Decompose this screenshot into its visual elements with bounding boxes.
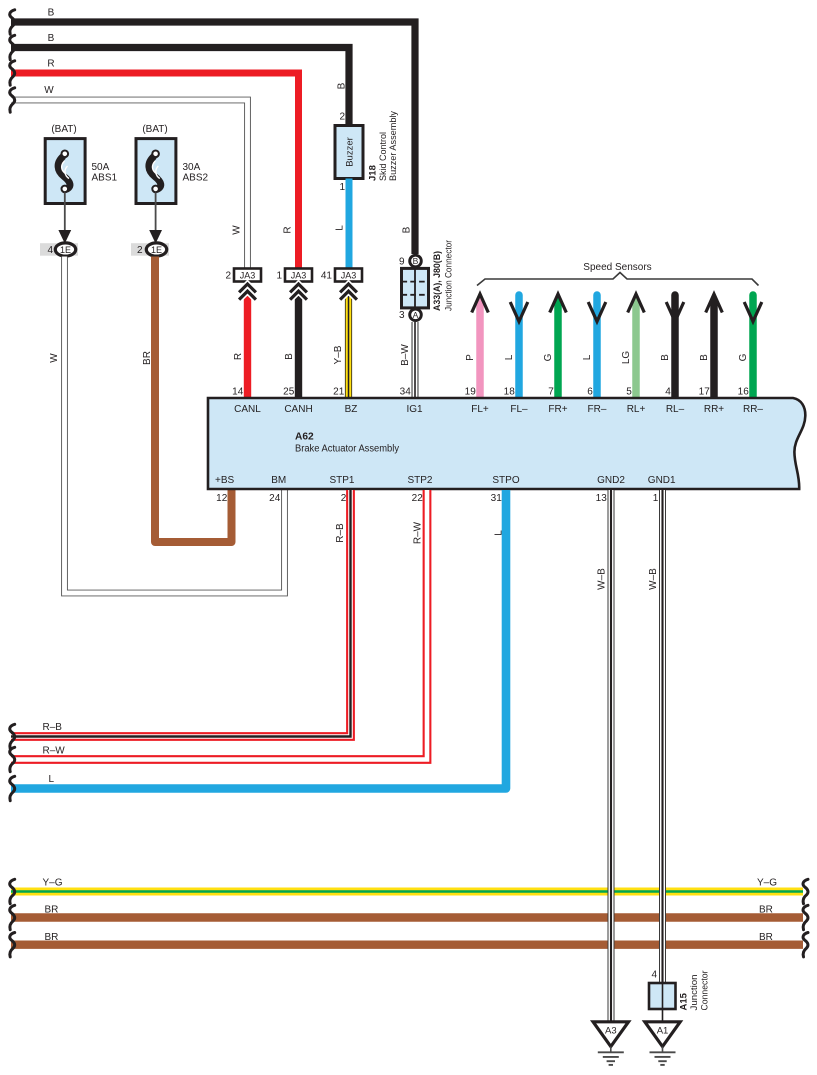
svg-text:R: R <box>47 59 54 70</box>
svg-text:FR+: FR+ <box>548 404 567 415</box>
svg-text:BR: BR <box>759 905 773 916</box>
junction connector A15 <box>649 970 711 1011</box>
svg-text:R: R <box>233 353 244 360</box>
svg-text:16: 16 <box>738 386 750 397</box>
svg-text:B–W: B–W <box>400 344 411 366</box>
svg-text:17: 17 <box>699 386 711 397</box>
wire BR (1E pin 2 to A62 pin +BS) <box>155 257 232 543</box>
svg-text:CANL: CANL <box>234 404 261 415</box>
svg-text:BM: BM <box>271 475 286 486</box>
chevron arrows below JA3 pin 1 <box>290 284 307 300</box>
wire W (1E pin 4 to A62 pin BM) <box>65 257 285 594</box>
svg-text:L: L <box>335 225 346 231</box>
svg-text:(BAT): (BAT) <box>142 124 167 135</box>
svg-text:1: 1 <box>653 493 659 504</box>
svg-text:2: 2 <box>339 112 345 123</box>
wire B-W (A33 pin 3 to A62 pin IG1) <box>412 322 419 399</box>
svg-text:RR+: RR+ <box>704 404 724 415</box>
wire L (A62 pin STPO) <box>11 490 506 789</box>
svg-text:Brake Actuator Assembly: Brake Actuator Assembly <box>295 444 399 455</box>
svg-text:4: 4 <box>665 386 671 397</box>
svg-text:50A: 50A <box>92 162 110 173</box>
svg-text:BR: BR <box>142 351 153 365</box>
wire L (buzzer pin 1 to JA3 pin 41) <box>346 179 353 269</box>
svg-text:B: B <box>48 8 55 19</box>
wire W-B (A62 pin GND2 to ground A3) <box>608 490 615 1022</box>
svg-text:STPO: STPO <box>492 475 519 486</box>
svg-text:W: W <box>49 353 60 363</box>
wire break mark (B feed 2) <box>10 35 15 59</box>
svg-text:A3: A3 <box>605 1025 617 1036</box>
wire W-B (A62 pin GND1 to junction connector A15) <box>659 490 666 984</box>
wire P speed sensor (FL+) <box>465 294 488 399</box>
ECU A62 Brake Actuator Assembly <box>208 398 805 489</box>
wire B (battery feed 1, to junction connector A33/J80 pin 9) <box>11 22 415 254</box>
svg-text:R–B: R–B <box>43 722 63 733</box>
svg-text:B: B <box>48 33 55 44</box>
wire G speed sensor (RR–) <box>738 295 762 399</box>
wire L speed sensor (FL–) <box>504 295 528 399</box>
svg-text:Junction Connector: Junction Connector <box>444 240 455 311</box>
svg-text:IG1: IG1 <box>406 404 423 415</box>
svg-text:13: 13 <box>596 493 608 504</box>
wire Y-B (JA3 pin 41 to A62 pin BZ) <box>345 296 352 399</box>
svg-text:BR: BR <box>45 905 59 916</box>
wire break mark (BR2 left) <box>10 933 15 957</box>
chevron arrows below JA3 pin 2 <box>239 284 256 300</box>
wire break mark (R feed) <box>10 61 15 85</box>
svg-text:Buzzer Assembly: Buzzer Assembly <box>388 111 399 181</box>
svg-text:1: 1 <box>276 271 282 282</box>
wire break mark (BR1 right) <box>803 905 808 929</box>
wire break mark (Y-G right) <box>803 879 808 903</box>
svg-text:Buzzer: Buzzer <box>345 137 356 167</box>
svg-text:Y–G: Y–G <box>757 878 777 889</box>
svg-text:9: 9 <box>399 257 405 268</box>
svg-text:J18: J18 <box>368 165 379 181</box>
fuse 50A ABS1 <box>45 124 117 204</box>
wire Y-G (horizontal) <box>11 888 803 896</box>
svg-text:FL+: FL+ <box>471 404 489 415</box>
connector 1E pin 4 <box>40 243 78 256</box>
svg-text:R–B: R–B <box>335 523 346 543</box>
svg-text:RL–: RL– <box>666 404 685 415</box>
svg-text:L: L <box>494 530 505 536</box>
svg-text:ABS2: ABS2 <box>183 172 209 183</box>
svg-text:1E: 1E <box>151 245 162 255</box>
wire R-W (A62 pin STP2) <box>11 490 427 760</box>
svg-text:B: B <box>660 354 671 361</box>
svg-text:RR–: RR– <box>743 404 763 415</box>
svg-text:4: 4 <box>47 245 53 256</box>
svg-text:L: L <box>49 774 55 785</box>
svg-text:34: 34 <box>400 386 412 397</box>
svg-text:W: W <box>232 225 243 235</box>
svg-text:G: G <box>543 353 554 361</box>
svg-text:B: B <box>337 82 348 89</box>
fuse 30A ABS2 <box>136 124 209 204</box>
svg-text:21: 21 <box>333 386 345 397</box>
svg-text:41: 41 <box>321 271 333 282</box>
junction connector JA3 pin 2 <box>225 269 261 282</box>
svg-text:7: 7 <box>548 386 554 397</box>
svg-text:B: B <box>413 256 419 266</box>
svg-text:1: 1 <box>339 182 345 193</box>
svg-text:A1: A1 <box>657 1025 669 1036</box>
wire B (JA3 pin 1 to A62 pin CANH) <box>295 296 302 399</box>
bracket over speed sensor wires <box>477 273 759 286</box>
svg-text:W–B: W–B <box>648 568 659 590</box>
svg-text:GND2: GND2 <box>597 475 625 486</box>
svg-text:25: 25 <box>283 386 295 397</box>
svg-text:12: 12 <box>216 493 228 504</box>
wire R-B (A62 pin STP1 to stop light switch) <box>11 490 351 737</box>
wire BR (horizontal 2) <box>11 941 803 949</box>
svg-text:14: 14 <box>232 386 244 397</box>
svg-text:R: R <box>283 226 294 233</box>
svg-text:5: 5 <box>626 386 632 397</box>
wire L speed sensor (FR–) <box>582 295 606 399</box>
chevron arrows below JA3 pin 41 <box>340 284 357 300</box>
wire B (battery feed 2, to skid control buzzer pin 2) <box>11 48 349 127</box>
svg-text:18: 18 <box>504 386 516 397</box>
svg-text:BR: BR <box>45 932 59 943</box>
svg-text:JA3: JA3 <box>291 270 307 280</box>
svg-text:FR–: FR– <box>588 404 607 415</box>
svg-text:FL–: FL– <box>510 404 528 415</box>
svg-text:RL+: RL+ <box>627 404 646 415</box>
svg-text:W: W <box>44 85 54 96</box>
wire fuse2 to connector 1E pin 2 <box>155 192 157 232</box>
connector 1E pin 2 <box>131 243 169 256</box>
svg-text:W–B: W–B <box>597 568 608 590</box>
junction connector A33(A), J80(B) <box>399 240 455 321</box>
svg-text:4: 4 <box>651 970 657 981</box>
buzzer J18 Skid Control Buzzer Assembly <box>335 111 399 193</box>
svg-text:Y–B: Y–B <box>333 345 344 364</box>
wire R (JA3 pin 2 to A62 pin CANL) <box>244 296 251 399</box>
svg-text:22: 22 <box>412 493 424 504</box>
svg-text:ABS1: ABS1 <box>92 172 118 183</box>
svg-text:STP2: STP2 <box>407 475 432 486</box>
wire fuse1 to connector 1E pin 4 <box>64 192 66 232</box>
svg-text:B: B <box>699 354 710 361</box>
svg-text:24: 24 <box>269 493 281 504</box>
svg-text:(BAT): (BAT) <box>51 124 76 135</box>
svg-text:JA3: JA3 <box>341 270 357 280</box>
wire G speed sensor (FR+) <box>543 294 566 399</box>
svg-text:3: 3 <box>399 310 405 321</box>
svg-text:A33(A), J80(B): A33(A), J80(B) <box>432 251 443 311</box>
wire break mark (BR2 right) <box>803 933 808 957</box>
wire R (feed to junction connector JA3 pin 1) <box>11 73 299 268</box>
wire A15 to ground A1 <box>662 983 664 1022</box>
svg-text:1E: 1E <box>60 245 71 255</box>
svg-text:BR: BR <box>759 932 773 943</box>
svg-text:JA3: JA3 <box>240 270 256 280</box>
svg-text:2: 2 <box>225 271 231 282</box>
svg-text:2: 2 <box>137 245 143 256</box>
svg-text:19: 19 <box>465 386 477 397</box>
svg-text:STP1: STP1 <box>329 475 354 486</box>
wire break mark (R-B) <box>10 724 15 748</box>
junction connector JA3 pin 41 <box>321 269 362 282</box>
svg-text:GND1: GND1 <box>648 475 676 486</box>
svg-text:BZ: BZ <box>345 404 358 415</box>
ground A3 <box>593 1022 628 1065</box>
svg-text:Speed Sensors: Speed Sensors <box>583 262 651 273</box>
svg-text:Junction: Junction <box>689 975 700 1011</box>
svg-text:Y–G: Y–G <box>43 878 63 889</box>
wire break mark (W feed) <box>10 88 15 112</box>
wire W (feed to junction connector JA3 pin 2) <box>11 100 248 268</box>
wire break mark (B feed 1) <box>10 10 15 34</box>
wire break mark (L) <box>10 776 15 800</box>
svg-text:G: G <box>738 353 749 361</box>
svg-text:Connector: Connector <box>700 971 711 1011</box>
svg-text:P: P <box>465 354 476 361</box>
svg-text:CANH: CANH <box>284 404 312 415</box>
wire BR (horizontal 1) <box>11 913 803 921</box>
wire break mark (R-W) <box>10 747 15 771</box>
svg-text:A: A <box>413 310 419 320</box>
svg-text:6: 6 <box>587 386 593 397</box>
wire B speed sensor (RR+) <box>699 294 722 399</box>
wire LG speed sensor (RL+) <box>621 294 644 399</box>
wire B speed sensor (RL–) <box>660 295 684 399</box>
junction connector JA3 pin 1 <box>276 269 312 282</box>
svg-text:B: B <box>402 226 413 233</box>
ground A1 <box>645 1022 680 1065</box>
svg-text:2: 2 <box>341 493 347 504</box>
svg-text:L: L <box>582 354 593 360</box>
svg-text:A62: A62 <box>295 431 314 442</box>
svg-text:LG: LG <box>621 351 632 365</box>
wire break mark (BR1 left) <box>10 905 15 929</box>
svg-text:R–W: R–W <box>413 521 424 544</box>
svg-text:L: L <box>504 354 515 360</box>
svg-text:31: 31 <box>491 493 503 504</box>
svg-text:+BS: +BS <box>215 475 235 486</box>
svg-text:30A: 30A <box>183 162 201 173</box>
wire break mark (Y-G left) <box>10 879 15 903</box>
svg-text:R–W: R–W <box>43 746 66 757</box>
svg-text:B: B <box>284 353 295 360</box>
svg-text:A15: A15 <box>679 992 690 1010</box>
